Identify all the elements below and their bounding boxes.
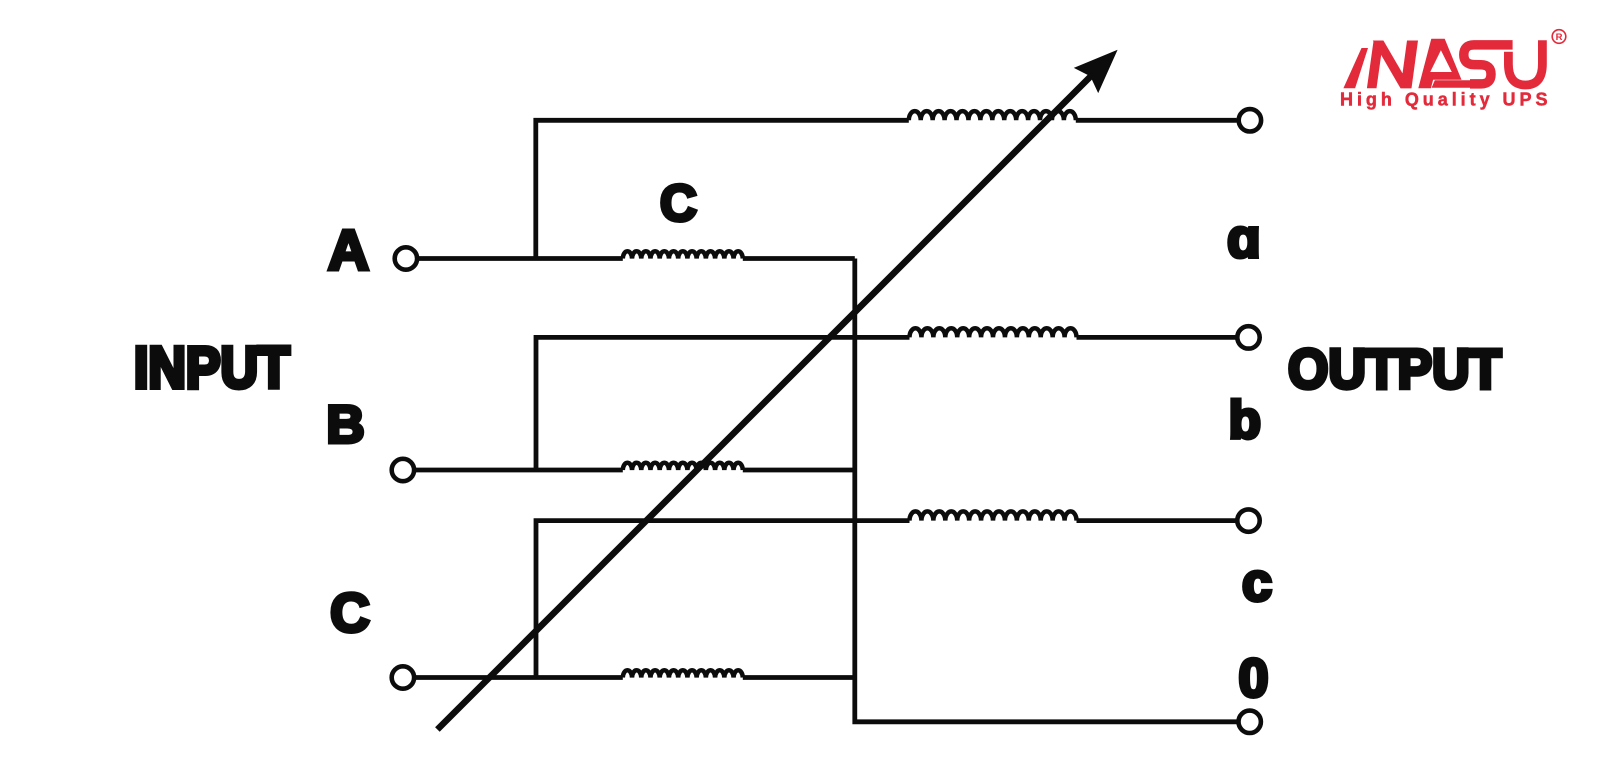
output terminal b xyxy=(1237,326,1259,348)
svg-text:ɑ: ɑ xyxy=(1227,207,1261,269)
svg-text:R: R xyxy=(1556,32,1563,43)
variac wiper arrowhead xyxy=(1074,50,1118,93)
variac wiper arrow shaft xyxy=(437,72,1095,730)
wire: vertical bus from node A down to neutral output, corner to terminal 0 xyxy=(855,259,1237,722)
output terminal 0 (neutral) xyxy=(1239,711,1261,733)
svg-text:INPUT: INPUT xyxy=(134,335,290,400)
logo letter S bottom tail bar xyxy=(1432,80,1484,87)
svg-text:OUTPUT: OUTPUT xyxy=(1288,338,1501,400)
wire: output c wire from coil to terminal c xyxy=(1077,518,1237,523)
wire: output b wire from coil to terminal b xyxy=(1077,335,1237,340)
svg-text:0: 0 xyxy=(1238,649,1268,709)
logo letter M: N-form right stem xyxy=(1401,41,1419,89)
winding L-a (coil on top output wire) xyxy=(909,111,1076,120)
svg-text:C: C xyxy=(660,174,697,231)
wire: top output wire from coil to terminal a xyxy=(1076,118,1237,123)
input terminal C xyxy=(392,666,414,688)
wire: phase A wire from coil to right bus corner xyxy=(743,256,855,261)
logo letter U stroke xyxy=(1508,40,1542,85)
wire: top output branch from vertical riser at node A to terminal a xyxy=(536,120,909,258)
logo letter A outer shape xyxy=(1418,39,1461,89)
svg-text:C: C xyxy=(330,582,370,644)
wire: input phase B from terminal to bus xyxy=(416,468,623,473)
output terminal a xyxy=(1239,109,1261,131)
wire: input phase C from terminal to bus xyxy=(416,675,623,680)
winding L-C (coil on phase C wire) xyxy=(623,670,743,677)
winding L-b (coil on output b wire) xyxy=(910,328,1077,337)
winding L-A (coil on phase A wire) xyxy=(623,251,743,258)
logo letter A counter (white) xyxy=(1430,50,1452,72)
logo letter M: leading slash stroke xyxy=(1343,48,1368,88)
output terminal c xyxy=(1237,509,1259,531)
wire: input phase A from terminal to main bus xyxy=(419,256,623,261)
wire: output branch b riser and horizontal run to coil xyxy=(536,337,910,470)
winding L-c (coil on output c wire) xyxy=(910,511,1077,520)
logo letter M: N-form diagonal xyxy=(1373,41,1411,89)
logo letter M: N-form left stem xyxy=(1367,41,1383,89)
logo letter S stroke xyxy=(1464,45,1513,84)
logo MASU xyxy=(1340,30,1566,110)
logo registered trademark circle xyxy=(1552,30,1566,44)
svg-text:A: A xyxy=(328,218,369,282)
svg-text:b: b xyxy=(1229,391,1261,450)
svg-text:c: c xyxy=(1242,553,1272,613)
wire: output branch c riser and horizontal run to coil xyxy=(536,521,910,678)
wire: phase B wire from coil to bus junction xyxy=(743,468,855,473)
svg-text:B: B xyxy=(326,396,364,455)
wire: phase C wire from coil to bus junction xyxy=(743,675,855,680)
input terminal A xyxy=(395,247,417,269)
winding L-B (coil on phase B wire) xyxy=(623,463,743,470)
input terminal B xyxy=(392,459,414,481)
